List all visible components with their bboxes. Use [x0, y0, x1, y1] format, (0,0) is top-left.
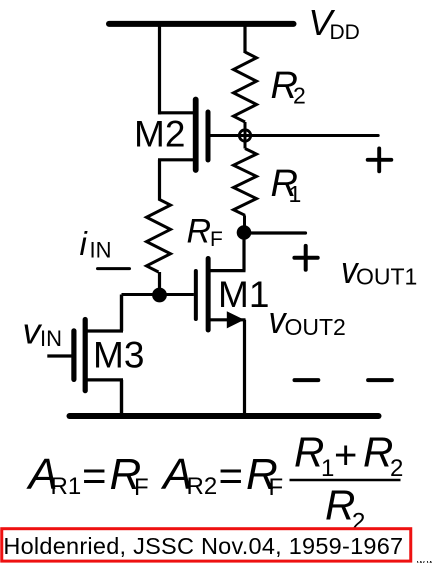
summing node circle [239, 130, 250, 141]
transistor M2 gate bar [206, 112, 211, 160]
R2 label [271, 65, 306, 109]
svg-text:IN: IN [90, 238, 112, 263]
svg-text:2: 2 [352, 509, 365, 536]
resistor R2 [234, 52, 257, 122]
svg-text:2: 2 [390, 455, 403, 482]
input node dot [152, 288, 167, 303]
transistor M2 channel bar [193, 100, 199, 171]
formula fraction bar [290, 479, 401, 482]
iin label [80, 225, 112, 263]
formula A_R1 = R_F [26, 450, 149, 501]
svg-text:+: + [334, 434, 357, 478]
wire M3 drain stub [86, 329, 123, 332]
plus sign top right [368, 148, 392, 171]
wire VDD rail to M2 drain [158, 24, 161, 115]
M1 source arrow [227, 311, 244, 328]
transistor M1 gate bar [194, 271, 198, 319]
vout2 label [269, 300, 346, 342]
formula fraction denominator R2 [325, 482, 365, 536]
svg-text:M1: M1 [218, 274, 269, 315]
svg-text:1: 1 [321, 455, 334, 482]
wire R2 bottom through summing node to R1 [244, 122, 247, 149]
transistor M1 channel bar [206, 259, 211, 331]
svg-text:M2: M2 [134, 114, 185, 155]
svg-text:OUT1: OUT1 [356, 264, 417, 290]
wire node to vout1 plus [244, 231, 306, 234]
VDD rail [109, 21, 294, 27]
wire M2 drain stub [158, 111, 193, 114]
wire M2 source down to RF [158, 160, 161, 200]
vin label [23, 311, 63, 352]
svg-text:F: F [210, 228, 223, 251]
wire M2 gate through summing node to right plus [210, 134, 378, 137]
wire M1 drain stub [210, 269, 246, 272]
svg-text:R: R [363, 429, 393, 476]
resistor RF [147, 199, 171, 272]
wire M1 source stub [210, 318, 246, 321]
VDD label [308, 2, 359, 44]
formula fraction numerator R1 + R2 [294, 429, 403, 483]
RF label [187, 213, 223, 251]
svg-text:1: 1 [289, 181, 302, 207]
svg-text:R: R [187, 213, 212, 251]
svg-text:R: R [325, 482, 355, 529]
svg-text:M3: M3 [93, 334, 144, 375]
iin current bar [98, 267, 130, 270]
svg-text:2: 2 [293, 83, 306, 109]
ground rail [70, 413, 379, 419]
svg-text:w.w: w.w [416, 558, 432, 563]
svg-text:R1: R1 [51, 473, 82, 500]
svg-text:DD: DD [330, 21, 360, 44]
svg-text:F: F [269, 474, 284, 501]
svg-text:=: = [219, 452, 244, 499]
node dot vout1 [237, 225, 252, 240]
wire input node to M1 gate [122, 293, 194, 296]
wire M2 source stub [158, 158, 193, 161]
svg-text:R: R [294, 429, 324, 476]
R1 label [271, 163, 302, 207]
formula A_R2 = R_F [160, 450, 283, 501]
wire M3 source stub [86, 378, 123, 381]
wire M1 drain up to node [242, 232, 245, 271]
citation red box [2, 529, 411, 561]
transistor M3 gate bar [71, 331, 76, 380]
plus sign vout1 [294, 246, 317, 270]
resistor R1 [234, 149, 257, 216]
wire R1 bottom to node dot [243, 215, 246, 233]
wire M1 source down to ground rail [243, 320, 246, 416]
minus sign vout2 [295, 378, 319, 382]
wire RF bottom to input node [158, 272, 161, 295]
svg-text:i: i [80, 225, 89, 262]
svg-text:R2: R2 [187, 473, 218, 500]
wire M3 source down to rail [120, 380, 123, 416]
svg-text:Holdenried, JSSC Nov.04, 1959-: Holdenried, JSSC Nov.04, 1959-1967 [3, 533, 403, 559]
svg-text:=: = [82, 452, 107, 499]
wire M3 gate lead [47, 354, 74, 357]
transistor M3 channel bar [83, 320, 88, 391]
minus sign vout1 [368, 378, 392, 382]
vout1 label [341, 250, 417, 292]
wire left down to M3 drain [120, 295, 123, 332]
wire R2 top lead from rail [243, 24, 246, 53]
svg-text:OUT2: OUT2 [285, 314, 346, 340]
svg-text:IN: IN [40, 326, 62, 351]
svg-text:F: F [134, 474, 149, 501]
